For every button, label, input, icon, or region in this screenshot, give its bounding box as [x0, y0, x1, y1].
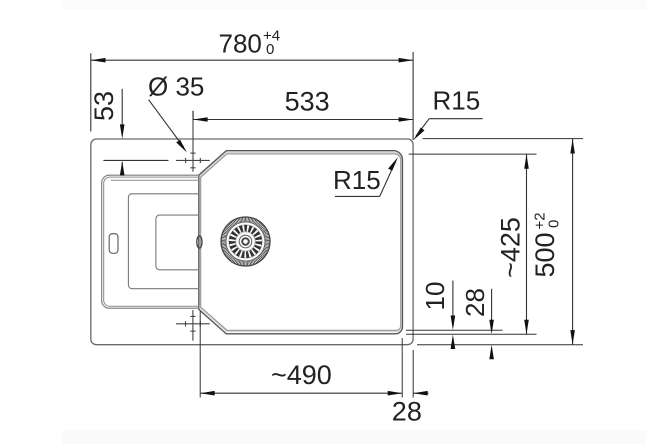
svg-text:28: 28: [392, 396, 422, 426]
dimension 533: [193, 111, 413, 120]
svg-text:0: 0: [266, 41, 274, 58]
dimension 53 (vertical, left): [103, 89, 168, 175]
dimension ~425 (vertical): [526, 154, 528, 334]
dimension 28 (vertical, small, right): [491, 289, 493, 328]
dimension 780 +4/0: [91, 52, 413, 140]
drainboard outline outer: [102, 175, 200, 308]
bottom extension lines: [200, 311, 413, 398]
svg-text:533: 533: [285, 87, 330, 117]
sink outer outline: [91, 139, 413, 345]
right side extension lines: [406, 139, 583, 345]
dimension 28 (bottom): [413, 392, 428, 394]
bowl inner contour: [201, 154, 401, 330]
bowl rim band: [200, 152, 402, 331]
dimension 10 (vertical, small): [452, 281, 454, 324]
svg-text:Ø 35: Ø 35: [148, 72, 204, 102]
dimension 500 +2/0 (vertical): [572, 139, 574, 345]
svg-text:0: 0: [546, 220, 563, 228]
overflow slot on bowl left wall: [197, 236, 202, 248]
svg-text:53: 53: [89, 91, 119, 121]
drainboard step rectangle 1: [128, 194, 199, 289]
drainboard outline inner: [104, 177, 200, 306]
svg-text:10: 10: [420, 282, 450, 311]
drainboard inner top line: [111, 179, 200, 181]
svg-text:~425: ~425: [496, 217, 526, 278]
faint bottom band: [62, 430, 646, 444]
svg-text:R15: R15: [433, 86, 481, 116]
bowl outer contour: [199, 151, 403, 334]
dimension ~490 (bottom): [200, 392, 402, 394]
svg-text:R15: R15: [333, 165, 381, 195]
svg-text:780: 780: [219, 28, 262, 58]
faint top band: [62, 0, 646, 10]
drain strainer: [221, 217, 270, 266]
svg-text:500: 500: [530, 232, 560, 277]
drainboard step rectangle 2: [156, 215, 200, 270]
svg-text:28: 28: [460, 288, 490, 317]
drainboard handle slot: [109, 234, 118, 254]
tap hole centre mark (bottom): [176, 310, 210, 341]
svg-text:~490: ~490: [271, 360, 332, 390]
tap hole centre mark (top): [176, 111, 210, 172]
